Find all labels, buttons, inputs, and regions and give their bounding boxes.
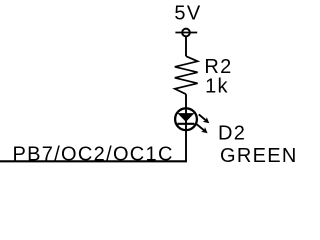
LED D2	[175, 108, 197, 130]
svg-text:PB7/OC2/OC1C: PB7/OC2/OC1C	[13, 143, 174, 165]
svg-text:GREEN: GREEN	[220, 145, 298, 167]
svg-text:1k: 1k	[205, 75, 229, 97]
wire terminal to resistor	[185, 37, 187, 57]
LED emission arrow 1	[199, 114, 210, 123]
resistor R2	[175, 56, 198, 94]
wire bottom rail	[0, 160, 187, 162]
LED emission arrow 2	[197, 124, 208, 133]
wire resistor to LED and LED to bottom rail	[185, 94, 187, 161]
svg-text:5V: 5V	[174, 3, 201, 25]
power terminal 5V	[175, 29, 197, 37]
svg-text:D2: D2	[218, 122, 246, 144]
